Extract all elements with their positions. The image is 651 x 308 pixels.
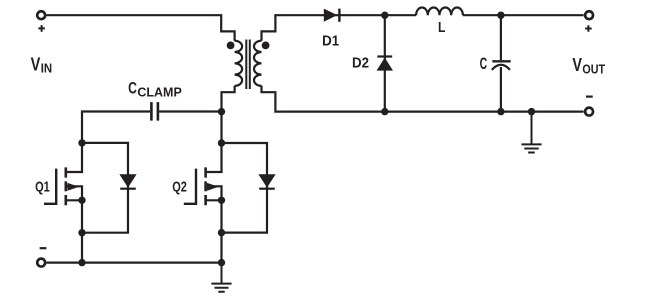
terminal output minus [585, 108, 593, 116]
transformer primary polarity dot [227, 42, 235, 50]
svg-text:IN: IN [41, 61, 52, 76]
svg-text:C: C [480, 54, 488, 73]
wire Q2 source [206, 200, 221, 262]
capacitor C [492, 60, 510, 62]
node output ground junction [528, 108, 535, 115]
diode Q1 body [119, 174, 136, 187]
transformer T1 secondary winding [254, 41, 262, 86]
svg-text:Q2: Q2 [172, 178, 187, 195]
node Q1 drain junction [78, 139, 85, 146]
inductor L [416, 7, 463, 15]
svg-text:V: V [31, 53, 41, 74]
diode D2 [377, 55, 392, 57]
svg-text:V: V [572, 54, 582, 75]
wire secondary bottom / output bottom rail [262, 86, 584, 112]
node Q1 source-body junction [78, 197, 85, 204]
wire secondary top to rectifier rail [262, 15, 584, 41]
wire Q1 drain [66, 143, 82, 172]
minus sign input [40, 247, 47, 249]
transistor Q2 channel [204, 167, 207, 205]
node Q1 diode bottom junction [78, 229, 85, 236]
ground output [521, 112, 541, 153]
node ground rail junction [218, 259, 225, 266]
svg-text:Q1: Q1 [35, 178, 50, 195]
terminal output plus [585, 11, 593, 19]
node input minus rail junction [78, 259, 85, 266]
transformer core [246, 40, 250, 90]
wire C branch top [500, 15, 502, 60]
wire Q2 drain loop top and body-diode branch [222, 143, 268, 233]
svg-text:C: C [128, 79, 137, 98]
node D1 cathode junction [381, 12, 388, 19]
transistor Q2 body stub arrow [207, 186, 222, 200]
node C bottom rail junction [497, 108, 504, 115]
terminal input plus [37, 11, 45, 19]
svg-text:OUT: OUT [582, 61, 605, 76]
node D2 anode rail junction [381, 108, 388, 115]
transformer secondary polarity dot [262, 42, 270, 50]
node clamp junction [218, 108, 225, 115]
wire clamp row right [159, 110, 221, 112]
svg-text:CLAMP: CLAMP [137, 84, 182, 99]
wire Q1 drain loop top and body-diode branch [82, 143, 128, 233]
wire D2 branch [384, 15, 386, 111]
node Q2 diode bottom junction [218, 229, 225, 236]
ground primary [211, 263, 231, 292]
wire top rail primary [47, 15, 235, 41]
node L-C junction [497, 12, 504, 19]
terminal input minus [37, 259, 45, 267]
wire C branch bottom [500, 67, 502, 112]
diode D1 [324, 9, 338, 22]
wire primary bottom to clamp node and Q2 drain [206, 86, 235, 172]
svg-text:D2: D2 [352, 55, 369, 72]
plus sign output [585, 25, 592, 32]
plus sign input [38, 25, 45, 32]
diode Q2 body [258, 174, 275, 187]
wire clamp row left [82, 112, 150, 143]
wire Q1 source [66, 200, 82, 262]
minus sign output [586, 95, 593, 97]
node Q2 drain junction [218, 139, 225, 146]
capacitor C_CLAMP [151, 102, 158, 121]
node Q2 source-body junction [218, 197, 225, 204]
wire bottom rail left [47, 262, 222, 264]
transistor Q2 gate [184, 169, 196, 204]
transistor Q1 channel [65, 167, 68, 205]
svg-text:L: L [438, 19, 445, 36]
svg-text:D1: D1 [322, 33, 339, 50]
transformer T1 primary winding [235, 41, 243, 86]
transistor Q1 body stub arrow [67, 186, 82, 200]
transistor Q1 gate [44, 169, 56, 204]
